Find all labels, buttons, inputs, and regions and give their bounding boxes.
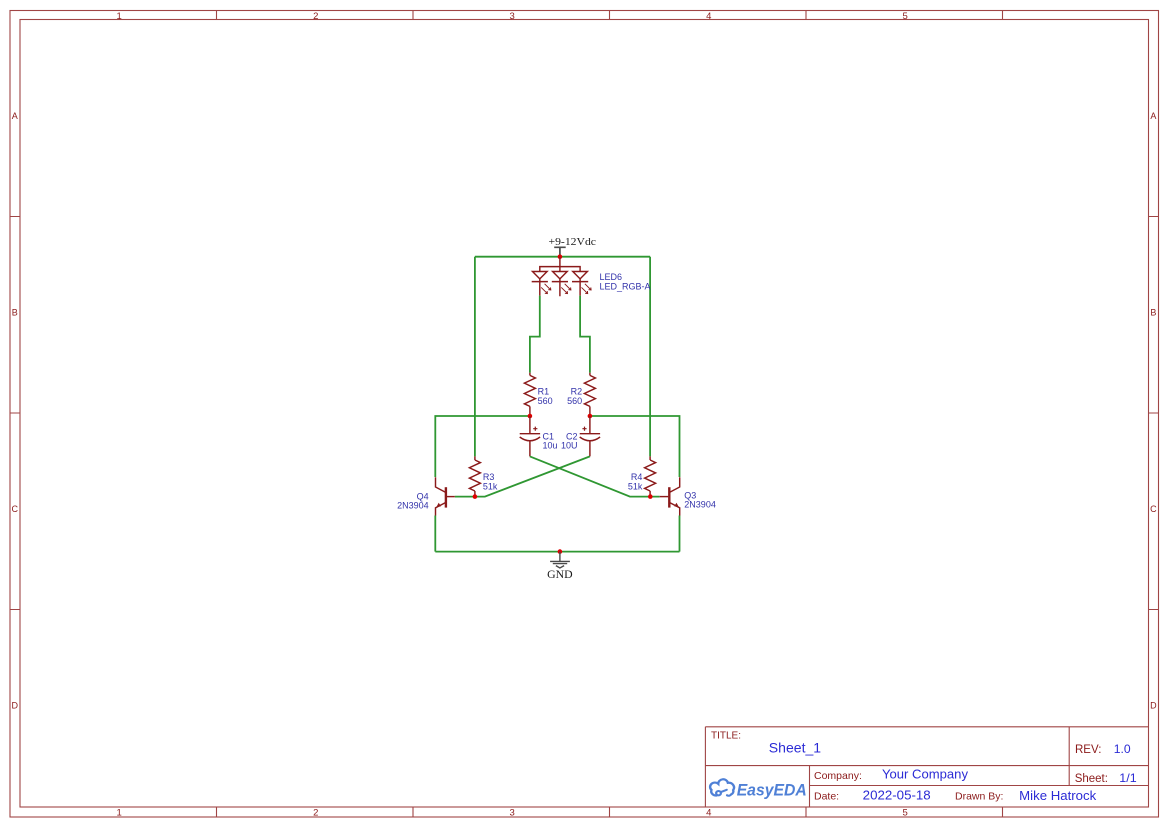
wire power rail [475,256,650,258]
svg-text:TITLE:: TITLE: [711,731,741,742]
wire LED left cathode to R1 [530,296,540,373]
svg-text:Mike Hatrock: Mike Hatrock [1019,788,1096,803]
svg-text:1: 1 [117,11,122,22]
svg-text:1/1: 1/1 [1119,771,1137,785]
svg-text:REV:: REV: [1075,744,1101,756]
svg-text:LED6: LED6 [600,272,623,282]
svg-text:Sheet_1: Sheet_1 [769,740,822,756]
resistor R4 [645,456,656,496]
EasyEDA logo [710,779,807,799]
svg-text:R2: R2 [571,387,583,397]
svg-text:2022-05-18: 2022-05-18 [863,788,931,802]
svg-text:3: 3 [510,11,515,22]
LED LED6 (LED_RGB-A) [532,257,591,297]
svg-text:560: 560 [567,396,582,406]
svg-text:Sheet:: Sheet: [1075,773,1108,785]
svg-text:C: C [1150,504,1157,514]
svg-text:Your Company: Your Company [882,767,969,781]
svg-text:51k: 51k [483,482,498,492]
svg-text:Drawn By:: Drawn By: [955,790,1003,802]
junction R2/C2 node [588,414,593,419]
svg-text:2N3904: 2N3904 [684,500,716,510]
resistor R3 [469,456,480,496]
junction ground node [558,549,563,554]
svg-text:5: 5 [903,11,908,22]
svg-text:51k: 51k [628,482,643,492]
svg-text:R4: R4 [631,472,643,482]
svg-text:5: 5 [903,808,908,819]
wire Q3 emitter to ground rail [679,516,681,552]
wire feed to R4 [649,257,651,457]
svg-text:560: 560 [538,396,553,406]
junction Q3 base node [648,494,653,499]
svg-text:1.0: 1.0 [1114,742,1131,756]
wire Q3 collector rail [590,416,680,477]
svg-text:Date:: Date: [814,790,839,802]
capacitor C1 [520,416,540,456]
svg-text:C: C [12,504,19,514]
resistor R2 [584,373,595,416]
capacitor C2 [580,416,600,456]
wire ground rail [435,551,679,553]
wire LED right cathode to R2 [580,296,590,373]
svg-text:D: D [1150,700,1157,710]
svg-text:10u: 10u [543,441,558,451]
wire feed to R3 [474,257,476,457]
svg-text:EasyEDA: EasyEDA [737,781,807,799]
svg-text:B: B [1150,307,1156,317]
junction R1/C1 node [528,414,533,419]
svg-text:+9-12Vdc: +9-12Vdc [549,236,597,248]
svg-text:10U: 10U [561,441,578,451]
svg-text:D: D [12,700,19,710]
svg-text:LED_RGB-A: LED_RGB-A [600,282,651,292]
svg-text:B: B [12,307,18,317]
junction power node [558,254,563,259]
wire Q4 emitter to ground rail [434,516,436,552]
transistor Q4 [436,477,455,515]
svg-text:2: 2 [313,808,318,819]
svg-text:2: 2 [313,11,318,22]
svg-text:3: 3 [510,808,515,819]
junction Q4 base node [473,494,478,499]
resistor R1 [524,373,535,416]
svg-text:4: 4 [706,808,711,819]
svg-text:A: A [1150,111,1156,121]
svg-text:2N3904: 2N3904 [397,501,429,511]
wire Q4 collector rail [435,416,530,477]
svg-text:R3: R3 [483,472,495,482]
svg-text:R1: R1 [538,387,550,397]
title block [705,727,1148,807]
svg-text:A: A [12,111,18,121]
ground GND [547,552,573,581]
svg-text:1: 1 [117,808,122,819]
wire C1 to Q3 base [530,456,660,496]
transistor Q3 [660,477,680,515]
svg-text:Company:: Company: [814,770,862,782]
svg-text:GND: GND [547,569,573,581]
wire C2 to Q4 base [455,456,590,496]
svg-text:4: 4 [706,11,711,22]
power flag +9-12Vdc [549,236,597,256]
